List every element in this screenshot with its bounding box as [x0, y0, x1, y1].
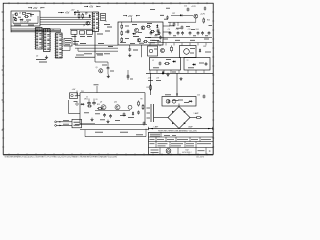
svg-text:R9: R9: [141, 99, 143, 101]
svg-text:+5V: +5V: [148, 77, 152, 79]
svg-text:C6: C6: [96, 99, 98, 101]
svg-text:1 AMP: 1 AMP: [188, 125, 193, 128]
svg-text:C20: C20: [197, 95, 200, 97]
svg-text:C9: C9: [168, 29, 170, 31]
svg-text:Q3: Q3: [83, 25, 85, 27]
svg-text:DL1 DELAY: DL1 DELAY: [20, 21, 30, 24]
svg-text:CR12: CR12: [84, 99, 88, 101]
svg-text:+5V: +5V: [128, 15, 133, 18]
svg-text:CR2: CR2: [85, 12, 88, 14]
svg-text:R4: R4: [77, 11, 79, 13]
svg-text:+12V: +12V: [191, 6, 196, 8]
svg-text:Y1: Y1: [105, 21, 107, 23]
svg-text:+5V: +5V: [33, 7, 38, 10]
svg-text:4470 REV C: 4470 REV C: [182, 152, 192, 154]
svg-text:+12V: +12V: [200, 14, 206, 16]
svg-text:C5: C5: [86, 97, 88, 99]
svg-text:R20: R20: [207, 20, 210, 22]
svg-text:C: C: [209, 150, 211, 153]
svg-text:+5V: +5V: [65, 12, 70, 15]
svg-text:R14: R14: [196, 29, 199, 31]
svg-text:L2: L2: [152, 60, 154, 62]
svg-text:CR7: CR7: [172, 13, 175, 15]
svg-text:U2: U2: [36, 56, 38, 58]
svg-text:Q9: Q9: [100, 101, 102, 103]
svg-text:CR9: CR9: [203, 46, 206, 48]
svg-text:R2: R2: [30, 16, 32, 18]
svg-text:Q6: Q6: [159, 45, 161, 47]
svg-text:C14: C14: [184, 6, 187, 8]
svg-text:1 AMP: 1 AMP: [194, 112, 200, 115]
svg-text:-5V: -5V: [156, 77, 160, 79]
svg-text:+5V: +5V: [89, 7, 94, 9]
svg-text:1 AMP: 1 AMP: [154, 125, 159, 128]
svg-text:C8: C8: [149, 29, 151, 31]
svg-text:U3: U3: [52, 30, 54, 32]
svg-text:+5V: +5V: [72, 89, 76, 91]
svg-text:+5V: +5V: [71, 10, 75, 12]
svg-text:C11: C11: [188, 29, 191, 31]
svg-text:102-4470: 102-4470: [196, 156, 204, 158]
svg-text:R17: R17: [147, 87, 150, 89]
svg-text:PS1: PS1: [81, 91, 84, 93]
svg-text:T2: T2: [187, 60, 189, 62]
svg-text:Q10: Q10: [114, 101, 117, 103]
svg-text:Q1: Q1: [19, 12, 21, 14]
svg-text:C10: C10: [176, 29, 179, 31]
svg-text:R24: R24: [97, 104, 100, 106]
svg-text:R11: R11: [157, 29, 160, 31]
svg-text:S:\ELE\HORNRECT\102-4470-C.SCH: S:\ELE\HORNRECT\102-4470-C.SCH REV C PLO…: [5, 156, 118, 158]
svg-text:Q5: Q5: [96, 67, 98, 69]
